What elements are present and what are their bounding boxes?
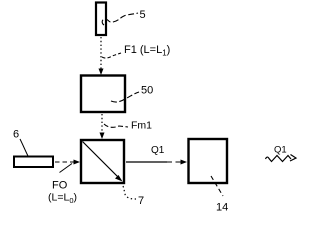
svg-text:14: 14 — [216, 202, 228, 214]
svg-text:6: 6 — [13, 129, 19, 141]
svg-text:50: 50 — [141, 85, 153, 97]
svg-text:5: 5 — [140, 9, 146, 21]
svg-text:7: 7 — [138, 195, 144, 207]
svg-text:Fm1: Fm1 — [131, 120, 152, 132]
svg-text:(L=L0): (L=L0) — [48, 192, 77, 206]
svg-text:FO: FO — [52, 180, 68, 192]
svg-text:Q1: Q1 — [151, 145, 165, 156]
svg-text:Q1: Q1 — [274, 145, 287, 156]
